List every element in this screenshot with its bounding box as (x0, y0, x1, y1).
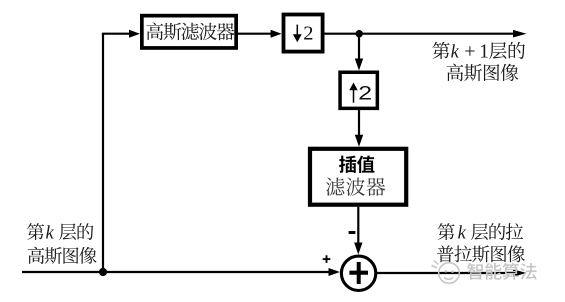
arrowhead into interpolation filter box (355, 135, 363, 147)
arrowhead: bottom-right output arrow (513, 269, 527, 277)
wire: junction down to upsample box (358, 34, 360, 60)
watermark: faint logo face (432, 261, 460, 284)
arrowhead into summation from left (329, 268, 341, 276)
label: 高斯滤波器 text (146, 22, 234, 40)
svg-text:+: + (464, 40, 475, 62)
arrowhead: top-right output arrow (513, 30, 527, 38)
wire: top rail to k+1 output (325, 33, 516, 35)
svg-text:1: 1 (479, 41, 489, 62)
label: 滤波器 text (326, 177, 385, 195)
node: junction dot bottom-left (99, 268, 107, 276)
label: input text 高斯图像 (left) (28, 247, 97, 264)
arrowhead into downsample box (271, 30, 282, 38)
label: output text 第 k 层的拉 (438, 223, 523, 243)
label: ↓2 symbol (293, 23, 314, 45)
label: 插值 bold text (339, 156, 374, 173)
block: downsample ↓2 (284, 15, 323, 52)
label: output text 第 k+1 层的 (432, 40, 525, 62)
arrowhead into Gaussian filter box (129, 30, 140, 38)
svg-text:2: 2 (303, 23, 313, 45)
wire: top-left horizontal into Gaussian filter (102, 33, 129, 35)
wire: summation to Laplacian output (376, 272, 514, 274)
wire: Gaussian filter to downsample box (238, 33, 271, 35)
label: plus sign at add input (323, 255, 331, 263)
svg-text:k: k (46, 224, 55, 244)
svg-text:k: k (458, 224, 467, 244)
svg-text:k: k (451, 43, 460, 63)
node: summation circle with plus (341, 256, 375, 290)
wire: bottom rail from input to summation (22, 271, 329, 273)
block: upsample ↑2 (340, 72, 377, 108)
arrowhead into summation node (354, 243, 362, 255)
block: interpolation filter 插值滤波器 (310, 149, 406, 205)
label: ↑2 symbol (349, 82, 372, 104)
wire: interpolation filter down to summation (357, 207, 359, 244)
block: Gaussian filter 高斯滤波器 (142, 16, 236, 48)
label: input text 第 k 层的 (27, 223, 93, 243)
watermark: 智能算法 text (467, 263, 537, 280)
node: junction dot on top rail (356, 30, 363, 37)
svg-text:2: 2 (358, 82, 372, 104)
wire: upsample to interpolation filter (358, 110, 360, 136)
label: minus sign at subtract input (349, 231, 356, 234)
wire: left vertical feed line (102, 34, 104, 272)
arrowhead into upsample box (355, 59, 363, 71)
label: output text 高斯图像 (top right) (447, 64, 519, 81)
label: output text 普拉斯图像 (437, 245, 525, 262)
